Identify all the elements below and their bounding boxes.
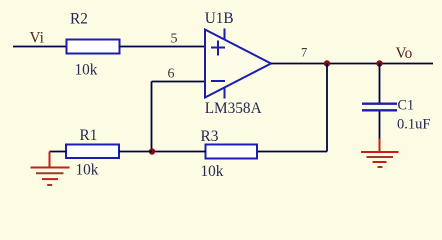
wire R2 to op-amp pin 5 [120, 46, 206, 48]
svg-text:0.1uF: 0.1uF [397, 117, 430, 133]
wire output to capacitor [379, 64, 381, 103]
resistor R1 [66, 145, 119, 159]
svg-text:7: 7 [301, 46, 307, 60]
svg-text:R2: R2 [70, 11, 88, 28]
svg-text:10k: 10k [201, 163, 224, 180]
wire op-amp pin 6 [152, 81, 206, 83]
wire pin6 vertical down to node [151, 82, 153, 152]
resistor R3 [206, 145, 258, 159]
wire Vi input [13, 46, 67, 48]
svg-text:R3: R3 [201, 128, 219, 145]
svg-text:LM358A: LM358A [205, 100, 262, 117]
ground symbol left [31, 152, 70, 186]
op-amp minus sign [211, 80, 225, 82]
wire R3 to node [152, 151, 206, 153]
svg-text:10k: 10k [75, 62, 98, 79]
op-amp bottom power pin stub [224, 87, 226, 99]
svg-text:10k: 10k [76, 162, 99, 179]
junction node R1/R3/pin6 [149, 148, 155, 154]
svg-text:5: 5 [171, 32, 178, 47]
wire R1 to node [119, 151, 152, 153]
svg-text:6: 6 [168, 67, 175, 82]
wire op-amp output pin 7 [271, 63, 433, 65]
capacitor C1 [362, 104, 397, 111]
junction node at feedback tap [324, 60, 330, 66]
wire feedback vertical [326, 64, 328, 152]
op-amp plus sign [211, 41, 225, 56]
svg-text:U1B: U1B [205, 10, 234, 27]
wire capacitor to ground [379, 112, 381, 139]
junction node at capacitor tap [376, 60, 382, 66]
resistor R2 [67, 40, 120, 54]
wire feedback horizontal to R3 [257, 151, 327, 153]
op-amp top power pin stub [224, 29, 226, 40]
op-amp U1B triangle body [205, 30, 271, 98]
wire ground to R1 [50, 151, 67, 153]
svg-text:C1: C1 [398, 98, 415, 114]
ground symbol right [361, 139, 399, 168]
svg-text:R1: R1 [80, 127, 98, 144]
svg-text:Vi: Vi [30, 29, 44, 46]
svg-text:Vo: Vo [396, 45, 413, 62]
